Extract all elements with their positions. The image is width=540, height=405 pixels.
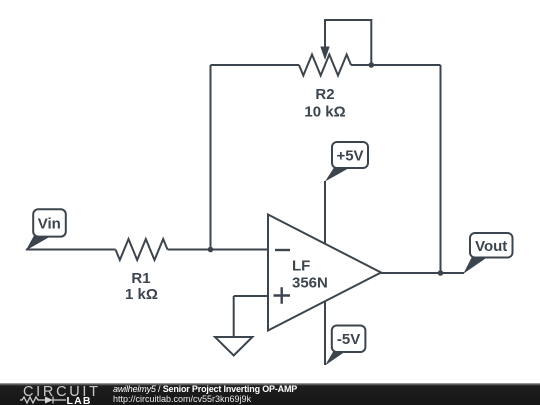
wire +5V supply <box>324 181 326 244</box>
svg-text:356N: 356N <box>292 275 328 292</box>
footer bar <box>0 383 540 405</box>
wire op-amp plus input <box>234 295 268 297</box>
op-amp U1 body <box>268 215 381 331</box>
wire R2 right to corner <box>351 64 441 66</box>
wire input left (Vin to R1) <box>26 249 116 251</box>
flag -5V box <box>332 326 366 353</box>
wire -5V supply <box>324 301 326 365</box>
flag Vin box <box>33 209 66 236</box>
svg-text:1 kΩ: 1 kΩ <box>125 286 158 303</box>
wire output <box>381 272 465 274</box>
svg-text:R2: R2 <box>315 86 334 103</box>
CircuitLab logo <box>0 381 110 405</box>
resistor R1 <box>116 239 168 260</box>
node junction dot wiper/feedback <box>369 62 375 68</box>
svg-text:10 kΩ: 10 kΩ <box>304 104 345 121</box>
svg-text:R1: R1 <box>131 270 150 287</box>
svg-text:-5V: -5V <box>337 331 360 348</box>
node junction dot output/feedback <box>438 270 444 276</box>
svg-text:LF: LF <box>292 258 310 275</box>
flag +5V box <box>332 142 368 168</box>
wire R1 to op-amp minus input <box>168 249 269 251</box>
wire R2 wiper loop <box>325 20 371 65</box>
svg-text:LAB: LAB <box>67 395 92 405</box>
wire feedback top left horizontal <box>211 64 300 66</box>
wire feedback right vertical <box>440 65 442 273</box>
wire feedback left vertical <box>210 65 212 250</box>
ground <box>215 337 252 356</box>
flag Vout tail <box>463 257 488 274</box>
op-amp minus symbol <box>275 249 290 251</box>
svg-text:+5V: +5V <box>336 148 363 165</box>
svg-text:Vin: Vin <box>38 216 61 233</box>
resistor R2 (potentiometer) <box>299 55 351 76</box>
node junction dot R1/feedback <box>208 247 214 253</box>
svg-text:Vout: Vout <box>475 238 507 255</box>
flag Vout box <box>470 233 513 258</box>
op-amp plus symbol <box>274 287 291 304</box>
flag Vin tail <box>26 236 52 251</box>
flag +5V tail <box>325 168 350 182</box>
R2 wiper arrowhead <box>320 47 329 61</box>
wire ground vertical <box>233 296 235 337</box>
flag -5V tail <box>325 351 346 366</box>
